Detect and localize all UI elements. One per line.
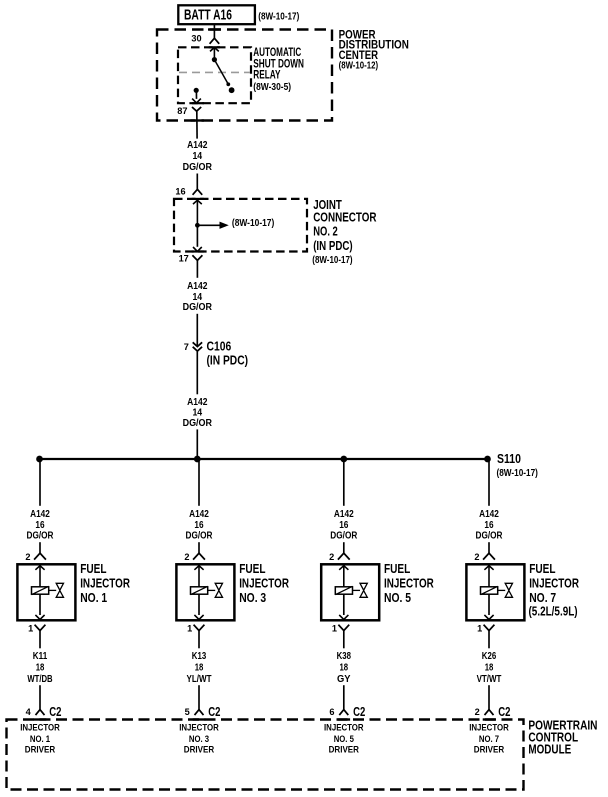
svg-text:WT/DB: WT/DB [27,674,52,685]
svg-text:DG/OR: DG/OR [183,302,213,313]
svg-text:A142: A142 [187,397,208,408]
fuel injector no. 5 outline [321,564,379,620]
connector C2 label [208,705,220,719]
svg-text:16: 16 [35,520,45,531]
injector no. 3 nozzle valve symbol [208,583,223,597]
wire to PCM connector C2 pin 2 [488,685,490,709]
wire to injector no. 7 pin 2 [488,542,490,553]
label FUEL INJECTOR NO. 5 [384,561,434,605]
wire from terminal 87 down through PDC wall [196,111,198,138]
wire to PCM connector C2 pin 5 [198,685,200,709]
svg-text:K11: K11 [33,651,48,662]
pin 7 label [184,342,189,352]
junction at injector 1 branch [36,456,43,463]
svg-text:FUEL: FUEL [80,561,106,576]
svg-text:RELAY: RELAY [253,69,280,82]
label FUEL INJECTOR NO. 3 [239,561,289,605]
svg-text:DG/OR: DG/OR [186,531,214,542]
automatic shut down relay K1 dashed outline [178,47,251,103]
injector no. 1 pin 1 female connector half [35,625,46,631]
svg-text:NO. 3: NO. 3 [189,734,209,744]
svg-text:(8W-10-17): (8W-10-17) [258,11,299,22]
label JOINT CONNECTOR NO. 2 (IN PDC) [312,197,377,266]
svg-text:(IN PDC): (IN PDC) [207,353,249,367]
branch arrow to (8W-10-17) [197,218,274,229]
svg-text:INJECTOR: INJECTOR [324,723,364,733]
injector no. 5 internal wire to pin 1 [339,594,348,619]
svg-text:NO. 1: NO. 1 [30,734,50,744]
wire from splice to fuel injector no. 1 [39,459,41,506]
svg-text:14: 14 [192,151,202,162]
pin 30 label [191,34,201,44]
svg-text:DG/OR: DG/OR [183,162,213,173]
svg-text:A142: A142 [30,509,50,520]
injector no. 3 solenoid coil [191,586,208,594]
splice bus wire [40,458,488,460]
injector no. 1 pin 2 male connector half (arrow) [35,566,44,587]
svg-text:C2: C2 [353,705,365,719]
wire label A142 16 DG/OR [186,509,214,542]
pin 87 label [177,106,187,116]
injector no. 7 solenoid coil [481,586,498,594]
svg-text:NO. 2: NO. 2 [313,224,338,239]
injector no. 1 pin 1 label [28,624,33,634]
svg-text:MODULE: MODULE [528,742,571,757]
label POWER DISTRIBUTION CENTER [339,28,409,72]
wire label K26 18 VT/WT [477,651,502,685]
svg-text:16: 16 [339,520,349,531]
relay contact to terminal 87 [192,88,201,103]
svg-text:(8W-10-12): (8W-10-12) [339,61,379,72]
svg-text:(8W-30-5): (8W-30-5) [253,82,291,93]
svg-text:K26: K26 [482,651,497,662]
svg-text:A142: A142 [334,509,354,520]
svg-text:A142: A142 [187,281,208,292]
svg-text:DG/OR: DG/OR [27,531,55,542]
connector C2 symbol at injector no. 7 driver [485,710,494,716]
wire from splice to fuel injector no. 3 [198,459,200,506]
svg-text:14: 14 [192,292,202,303]
wire label K13 18 YL/WT [187,651,212,685]
fuel injector no. 7 outline [466,564,524,620]
svg-text:16: 16 [484,520,494,531]
svg-text:VT/WT: VT/WT [477,674,502,685]
in-line connector C106 (double chevron) [193,342,202,351]
injector no. 7 pin 2 label [474,552,479,562]
PCM C2 pin 2 label [475,707,480,717]
svg-text:6: 6 [329,707,334,717]
svg-text:K13: K13 [192,651,207,662]
PCM internal label INJECTOR NO. 1 DRIVER [20,723,60,755]
svg-text:2: 2 [184,552,189,562]
wire to pin 17 [196,225,198,247]
svg-text:87: 87 [177,106,187,116]
injector no. 3 pin 2 label [184,552,189,562]
wire to joint connector pin 16 [196,174,198,190]
svg-text:(8W-10-17): (8W-10-17) [232,218,274,229]
relay switch blade [214,60,230,87]
connector C2 symbol at injector no. 5 driver [339,710,348,716]
splice S110 node [484,456,491,463]
svg-text:(8W-10-17): (8W-10-17) [312,255,352,266]
wire label K38 18 GY [337,651,352,685]
svg-text:CONNECTOR: CONNECTOR [313,209,377,224]
svg-text:16: 16 [194,520,204,531]
injector no. 1 pin 2 female connector half [34,553,46,559]
svg-text:FUEL: FUEL [529,561,555,576]
svg-text:K38: K38 [337,651,352,662]
svg-text:FUEL: FUEL [384,561,410,576]
wire to injector no. 1 pin 2 [39,542,41,553]
relay label AUTOMATIC SHUT DOWN RELAY (8W-30-5) [253,46,304,93]
injector no. 7 pin 2 male connector half (arrow) [484,566,493,587]
injector no. 5 pin 2 label [329,552,334,562]
svg-text:DRIVER: DRIVER [25,745,56,755]
svg-text:18: 18 [195,662,204,673]
svg-text:(IN PDC): (IN PDC) [313,238,352,253]
svg-text:INJECTOR: INJECTOR [239,576,289,591]
PCM C2 pin 5 label [185,707,190,717]
svg-text:2: 2 [25,552,30,562]
pin 17 label [179,254,189,264]
svg-text:7: 7 [184,342,189,352]
label FUEL INJECTOR NO. 7 [529,561,580,618]
reference label (8W-10-17) for BATT A16 [258,11,299,22]
svg-text:NO. 3: NO. 3 [239,590,266,605]
svg-text:4: 4 [26,707,32,717]
injector no. 7 pin 1 female connector half [484,625,495,631]
injector no. 5 pin 2 male connector half (arrow) [339,566,348,587]
svg-text:DG/OR: DG/OR [183,418,213,429]
label C106 (IN PDC) [207,340,249,368]
connector C2 label [498,705,510,719]
svg-text:A142: A142 [189,509,209,520]
wire from splice to fuel injector no. 5 [343,459,345,506]
svg-text:INJECTOR: INJECTOR [529,576,579,591]
injector no. 5 pin 2 female connector half [338,553,350,559]
wire label A142 14 DG/OR [183,397,213,429]
injector no. 1 nozzle valve symbol [49,583,64,597]
svg-text:14: 14 [192,408,202,419]
svg-text:YL/WT: YL/WT [187,674,212,685]
battery feed fuse box BATT A16 [178,5,255,24]
svg-text:NO. 7: NO. 7 [479,734,499,744]
svg-text:C2: C2 [49,705,61,719]
junction at injector 3 branch [194,456,201,463]
svg-text:C2: C2 [498,705,510,719]
pin 17 male connector half (arrow out) [193,247,202,251]
terminal 30 female connector half [210,38,220,44]
terminal 87 female connector half [192,107,201,111]
injector no. 5 pin 1 label [332,624,337,634]
svg-text:NO. 1: NO. 1 [80,590,107,605]
wire label A142 16 DG/OR [476,509,504,542]
svg-text:A142: A142 [187,140,208,151]
svg-text:18: 18 [36,662,45,673]
label POWERTRAIN CONTROL MODULE [528,717,597,756]
wire from splice to fuel injector no. 7 [488,459,490,506]
svg-text:1: 1 [187,624,192,634]
svg-text:18: 18 [340,662,349,673]
svg-text:S110: S110 [497,452,521,466]
svg-text:18: 18 [485,662,494,673]
svg-text:BATT A16: BATT A16 [184,7,232,23]
wire to injector no. 5 pin 2 [343,542,345,553]
svg-text:INJECTOR: INJECTOR [469,723,509,733]
PCM internal label INJECTOR NO. 7 DRIVER [469,723,509,755]
wire to injector no. 3 pin 2 [198,542,200,553]
connector C2 symbol at injector no. 3 driver [195,710,204,716]
injector no. 5 pin 1 female connector half [338,625,349,631]
svg-text:GY: GY [337,674,351,685]
svg-text:INJECTOR: INJECTOR [80,576,130,591]
wire from injector no. 3 pin 1 [198,631,200,649]
wire to PCM connector C2 pin 4 [39,685,41,709]
junction at injector 5 branch [340,456,347,463]
svg-text:NO. 5: NO. 5 [334,734,354,744]
connector C2 label [49,705,61,719]
PCM internal label INJECTOR NO. 5 DRIVER [324,723,364,755]
svg-text:5: 5 [185,707,190,717]
wire to connector C106 [196,314,198,347]
svg-text:INJECTOR: INJECTOR [179,723,219,733]
wire to splice S110 bus [196,429,198,459]
wire from injector no. 5 pin 1 [343,631,345,649]
svg-text:17: 17 [179,254,189,264]
svg-text:C2: C2 [208,705,220,719]
joint connector internal node [195,223,200,228]
svg-text:FUEL: FUEL [239,561,265,576]
injector no. 3 pin 2 female connector half [193,553,205,559]
svg-text:INJECTOR: INJECTOR [384,576,434,591]
wire from C106 down [196,351,198,394]
svg-text:1: 1 [477,624,482,634]
svg-text:DRIVER: DRIVER [184,745,215,755]
relay internal divider (faint) [179,71,250,73]
svg-text:1: 1 [332,624,337,634]
relay common pivot node [212,57,217,62]
wire to PCM connector C2 pin 6 [343,685,345,709]
svg-text:2: 2 [329,552,334,562]
svg-text:2: 2 [475,707,480,717]
injector no. 7 nozzle valve symbol [498,583,513,597]
pin 16 male connector half (arrow) [193,200,202,225]
connector C2 symbol at injector no. 1 driver [36,710,45,716]
fuel injector no. 1 outline [17,564,75,620]
terminal 30 male connector half (arrow into relay) [210,48,219,60]
wire from pin 17 down [196,260,198,277]
PCM internal label INJECTOR NO. 3 DRIVER [179,723,219,755]
powertrain control module enclosure (dashed) [7,720,524,790]
wire from injector no. 7 pin 1 [488,631,490,649]
injector no. 3 pin 1 female connector half [194,625,205,631]
pin 17 female connector half [192,255,202,260]
label FUEL INJECTOR NO. 1 [80,561,130,605]
svg-text:DRIVER: DRIVER [474,745,505,755]
svg-text:C106: C106 [207,340,232,354]
wire label K11 18 WT/DB [27,651,52,685]
svg-text:1: 1 [28,624,33,634]
power distribution center enclosure (dashed) [157,30,332,121]
svg-text:(8W-10-17): (8W-10-17) [497,468,538,479]
joint connector no. 2 dashed outline [174,199,307,252]
svg-text:2: 2 [474,552,479,562]
injector no. 7 pin 1 label [477,624,482,634]
PCM C2 pin 6 label [329,707,334,717]
injector no. 5 solenoid coil [335,586,352,594]
svg-text:DRIVER: DRIVER [329,745,360,755]
wire label A142 14 DG/OR [183,281,213,313]
injector no. 7 internal wire to pin 1 [484,594,493,619]
svg-text:(5.2L/5.9L): (5.2L/5.9L) [529,604,578,619]
connector C2 label [353,705,365,719]
svg-text:30: 30 [191,34,201,44]
injector no. 1 pin 2 label [25,552,30,562]
wire from BATT A16 to relay terminal 30 [213,24,215,38]
wire label A142 16 DG/OR [27,509,55,542]
injector no. 1 internal wire to pin 1 [35,594,44,619]
pin 16 label [175,187,185,197]
label S110 (8W-10-17) [497,452,538,479]
pin 16 female connector half [193,189,203,195]
relay normally-open contact [229,87,235,93]
injector no. 3 internal wire to pin 1 [194,594,203,619]
svg-text:A142: A142 [479,509,499,520]
svg-text:INJECTOR: INJECTOR [20,723,60,733]
fuel injector no. 3 outline [176,564,234,620]
injector no. 1 solenoid coil [32,586,49,594]
wire label A142 14 DG/OR [183,140,213,173]
svg-text:DG/OR: DG/OR [476,531,504,542]
injector no. 3 pin 1 label [187,624,192,634]
injector no. 7 pin 2 female connector half [483,553,495,559]
wire label A142 16 DG/OR [330,509,358,542]
svg-text:DG/OR: DG/OR [330,531,358,542]
injector no. 5 nozzle valve symbol [353,583,368,597]
wire from injector no. 1 pin 1 [39,631,41,649]
svg-text:NO. 5: NO. 5 [384,590,411,605]
svg-text:16: 16 [175,187,185,197]
PCM C2 pin 4 label [26,707,32,717]
injector no. 3 pin 2 male connector half (arrow) [194,566,203,587]
